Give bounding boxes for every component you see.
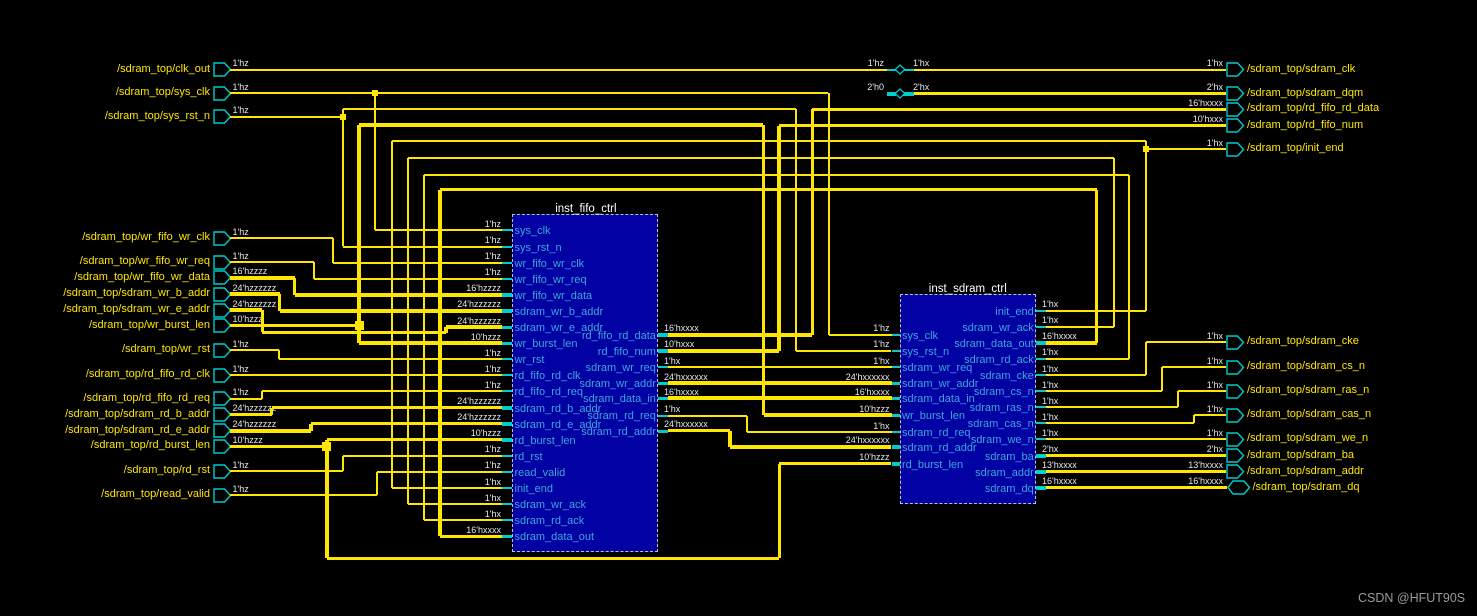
port /sdram_top/read_valid (input) xyxy=(213,488,232,503)
value 2'hx xyxy=(1042,444,1058,454)
pin sdram_ba (inst_sdram_ctrl output) xyxy=(1036,454,1046,458)
value 1'hz xyxy=(381,267,501,277)
value 24'hzzzzzz xyxy=(233,299,277,309)
value 2'hx xyxy=(1103,82,1223,92)
pin sdram_rd_ack (inst_fifo_ctrl input) xyxy=(502,519,512,521)
port /sdram_top/rd_rst (input) xyxy=(213,464,232,479)
junction sys_rst_n xyxy=(340,114,346,120)
wire net sdram_rd_b_addr (bus) xyxy=(230,413,272,417)
value 1'hx xyxy=(1103,58,1223,68)
value 2'h0 xyxy=(764,82,884,92)
value 1'hz xyxy=(233,251,249,261)
port /sdram_top/sdram_wr_e_addr (input) xyxy=(213,303,232,318)
pin sdram_wr_addr (inst_fifo_ctrl output) xyxy=(658,382,668,386)
wire net clk_out -> sdram_clk xyxy=(230,69,887,71)
value 16'hxxxx xyxy=(381,525,501,535)
port /sdram_top/rd_fifo_rd_req (input) xyxy=(213,391,232,406)
port /sdram_top/rd_burst_len (input) xyxy=(213,439,232,454)
pin sdram_dq (inst_sdram_ctrl output) xyxy=(1036,486,1046,490)
pin sdram_cke (inst_sdram_ctrl output) xyxy=(1036,374,1046,376)
wire net sdram_cas_n xyxy=(1046,422,1194,424)
pin sdram_rd_ack (inst_sdram_ctrl output) xyxy=(1036,358,1046,360)
value 1'hx xyxy=(1103,404,1223,414)
value 1'hz xyxy=(233,227,249,237)
wire net sdram_wr_b_addr (bus) xyxy=(230,292,280,296)
value 24'hzzzzzz xyxy=(233,419,277,429)
wire net wr_fifo_wr_clk xyxy=(230,237,333,239)
value 24'hzzzzzz xyxy=(381,412,501,422)
value 16'hxxxx xyxy=(664,323,699,333)
value 24'hzzzzzz xyxy=(381,299,501,309)
port /sdram_top/sdram_rd_e_addr (input) xyxy=(213,423,232,438)
value 1'hz xyxy=(381,219,501,229)
label inst_sdram_ctrl title xyxy=(929,283,1007,295)
value 1'hz xyxy=(233,58,249,68)
pin sys_rst_n (inst_fifo_ctrl input) xyxy=(502,246,512,248)
port /sdram_top/sdram_cke (output) xyxy=(1226,335,1245,350)
wire net sdram_wr_e_addr (bus) xyxy=(230,308,262,312)
wire net read_valid xyxy=(230,494,377,496)
value 1'hz xyxy=(233,387,249,397)
port /sdram_top/sdram_addr (output) xyxy=(1226,464,1245,479)
junction rd_burst_len xyxy=(322,442,331,451)
value 1'hz xyxy=(381,235,501,245)
wire net wr_rst xyxy=(230,349,279,351)
value 1'hz xyxy=(381,348,501,358)
value 2'hx xyxy=(913,82,929,92)
value 16'hxxxx xyxy=(770,387,890,397)
value 13'hxxxx xyxy=(1103,460,1223,470)
port /sdram_top/sdram_ba (output) xyxy=(1226,448,1245,463)
port /sdram_top/sys_rst_n (input) xyxy=(213,109,232,124)
value 1'hx xyxy=(1103,138,1223,148)
value 1'hx xyxy=(1042,412,1058,422)
value 1'hx xyxy=(381,477,501,487)
value 1'hx xyxy=(1042,347,1058,357)
value 1'hx xyxy=(1042,396,1058,406)
wire net sdram_ras_n xyxy=(1046,406,1178,408)
pin sdram_data_in (inst_fifo_ctrl output) xyxy=(658,397,668,401)
wire net rd_fifo_rd_clk xyxy=(230,374,502,376)
value 24'hzzzzzz xyxy=(381,316,501,326)
wire net sdram_dqm xyxy=(887,92,896,96)
wire net sdram_data_in (bus) xyxy=(668,396,892,400)
port /sdram_top/sdram_cas_n (output) xyxy=(1226,408,1245,423)
value 1'hx xyxy=(1042,299,1058,309)
port /sdram_top/rd_fifo_rd_clk (input) xyxy=(213,368,232,383)
value 1'hx xyxy=(664,356,680,366)
pin sdram_addr (inst_sdram_ctrl output) xyxy=(1036,470,1046,474)
pin sdram_wr_req (inst_sdram_ctrl input) xyxy=(892,366,900,368)
value 10'hzzz xyxy=(233,435,263,445)
wire net wr_burst_len (bus) xyxy=(230,324,359,328)
wire net init_end (feedback + output) xyxy=(1145,141,1147,310)
port /sdram_top/sdram_cs_n (output) xyxy=(1226,360,1245,375)
value 1'hz xyxy=(770,323,890,333)
value 1'hx xyxy=(1103,356,1223,366)
wire net sdram_addr (bus) xyxy=(1046,470,1226,474)
pin sdram_we_n (inst_sdram_ctrl output) xyxy=(1036,438,1046,440)
pin rd_burst_len (inst_fifo_ctrl input) xyxy=(502,438,512,442)
value 16'hxxxx xyxy=(1103,98,1223,108)
pin sdram_data_out (inst_fifo_ctrl input) xyxy=(502,535,512,539)
module U1 inst_fifo_ctrl body xyxy=(512,214,658,552)
value 2'hx xyxy=(1103,444,1223,454)
value 1'hz xyxy=(764,58,884,68)
value 1'hx xyxy=(381,509,501,519)
value 1'hx xyxy=(770,421,890,431)
value 24'hxxxxxx xyxy=(664,372,708,382)
wire net sdram_wr_addr (bus) xyxy=(668,381,892,385)
pin rd_rst (inst_fifo_ctrl input) xyxy=(502,455,512,457)
pin wr_fifo_wr_data (inst_fifo_ctrl input) xyxy=(502,293,512,297)
pin sdram_ras_n (inst_sdram_ctrl output) xyxy=(1036,406,1046,408)
value 10'hzzz xyxy=(381,428,501,438)
wire net sys_clk xyxy=(230,92,375,94)
wire net sdram_wr_ack (feedback) xyxy=(1046,326,1114,328)
value 1'hx xyxy=(1103,428,1223,438)
pin rd_fifo_rd_clk (inst_fifo_ctrl input) xyxy=(502,374,512,376)
wire net rd_burst_len (bus) xyxy=(230,445,327,449)
wire net sdram_wr_req xyxy=(668,366,892,368)
port /sdram_top/sdram_rd_b_addr (input) xyxy=(213,407,232,422)
value 1'hx xyxy=(1103,331,1223,341)
wire net sdram_cke xyxy=(1046,374,1146,376)
port /sdram_top/sdram_ras_n (output) xyxy=(1226,384,1245,399)
value 1'hx xyxy=(1042,428,1058,438)
port /sdram_top/sdram_dqm (output) xyxy=(1226,86,1245,101)
pin wr_burst_len (inst_sdram_ctrl input) xyxy=(892,414,900,418)
wire net rd_fifo_rd_req xyxy=(230,398,262,400)
pin sdram_cs_n (inst_sdram_ctrl output) xyxy=(1036,390,1046,392)
pin rd_fifo_rd_req (inst_fifo_ctrl input) xyxy=(502,390,512,392)
wire net sdram_rd_e_addr (bus) xyxy=(230,429,311,433)
wire net sdram_we_n xyxy=(1046,438,1226,440)
port /sdram_top/rd_fifo_rd_data (output) xyxy=(1226,102,1245,117)
value 24'hxxxxxx xyxy=(664,419,708,429)
value 1'hz xyxy=(233,339,249,349)
value 1'hz xyxy=(770,339,890,349)
value 24'hxxxxxx xyxy=(770,372,890,382)
value 13'hxxxx xyxy=(1042,460,1077,470)
value 1'hz xyxy=(381,460,501,470)
value 16'hzzzz xyxy=(381,283,501,293)
port /sdram_top/sdram_clk (output) xyxy=(1226,62,1245,77)
wire net wr_fifo_wr_data (bus) xyxy=(230,276,295,280)
pin sdram_rd_b_addr (inst_fifo_ctrl input) xyxy=(502,406,512,410)
port /sdram_top/rd_fifo_num (output) xyxy=(1226,118,1245,133)
value 10'hzzz xyxy=(770,404,890,414)
value 16'hzzzz xyxy=(233,266,268,276)
junction wr_burst_len xyxy=(355,321,364,330)
value 1'hz xyxy=(381,444,501,454)
value 24'hzzzzzz xyxy=(233,403,277,413)
port /sdram_top/sys_clk (input) xyxy=(213,86,232,101)
pin init_end (inst_fifo_ctrl input) xyxy=(502,487,512,489)
pin sdram_data_in (inst_sdram_ctrl input) xyxy=(892,397,900,401)
wire net rd_rst xyxy=(230,470,343,472)
pin wr_rst (inst_fifo_ctrl input) xyxy=(502,358,512,360)
node conversion diamond (2'h0/2'hx) xyxy=(894,88,906,99)
value 1'hx xyxy=(1103,380,1223,390)
value 16'hxxxx xyxy=(1042,476,1077,486)
pin sdram_rd_req (inst_sdram_ctrl input) xyxy=(892,431,900,433)
wire net sys_rst_n xyxy=(230,116,343,118)
port /sdram_top/init_end (output) xyxy=(1226,142,1245,157)
value 1'hz xyxy=(381,364,501,374)
value 1'hx xyxy=(664,404,680,414)
value 1'hz xyxy=(381,380,501,390)
wire net sdram_cs_n xyxy=(1046,390,1162,392)
port /sdram_top/sdram_we_n (output) xyxy=(1226,432,1245,447)
watermark xyxy=(1358,591,1465,605)
value 1'hx xyxy=(381,493,501,503)
pin sdram_rd_e_addr (inst_fifo_ctrl input) xyxy=(502,422,512,426)
value 1'hx xyxy=(913,58,929,68)
pin sys_clk (inst_fifo_ctrl input) xyxy=(502,229,512,231)
value 1'hx xyxy=(770,356,890,366)
value 24'hxxxxxx xyxy=(770,435,890,445)
pin wr_burst_len (inst_fifo_ctrl input) xyxy=(502,342,512,346)
pin sys_clk (inst_sdram_ctrl input) xyxy=(892,334,900,336)
value 10'hzzz xyxy=(233,314,263,324)
pin sdram_wr_ack (inst_fifo_ctrl input) xyxy=(502,503,512,505)
value 1'hz xyxy=(233,364,249,374)
pin sys_rst_n (inst_sdram_ctrl input) xyxy=(892,350,900,352)
pin sdram_wr_b_addr (inst_fifo_ctrl input) xyxy=(502,309,512,313)
value 1'hx xyxy=(1042,315,1058,325)
pin sdram_data_out (inst_sdram_ctrl output) xyxy=(1036,341,1046,345)
port /sdram_top/sdram_dq (inout) xyxy=(1227,480,1251,495)
pin wr_fifo_wr_clk (inst_fifo_ctrl input) xyxy=(502,262,512,264)
wire net sdram_ba (bus) xyxy=(1046,454,1226,458)
pin rd_burst_len (inst_sdram_ctrl input) xyxy=(892,462,900,466)
port /sdram_top/wr_fifo_wr_clk (input) xyxy=(213,231,232,246)
value 1'hz xyxy=(233,460,249,470)
pin sdram_wr_addr (inst_sdram_ctrl input) xyxy=(892,382,900,386)
value 10'hxxx xyxy=(1103,114,1223,124)
pin sdram_cas_n (inst_sdram_ctrl output) xyxy=(1036,422,1046,424)
value 16'hxxxx xyxy=(1042,331,1077,341)
pin read_valid (inst_fifo_ctrl input) xyxy=(502,471,512,473)
port /sdram_top/clk_out (input) xyxy=(213,62,232,77)
value 16'hxxxx xyxy=(664,387,699,397)
value 24'hzzzzzz xyxy=(381,396,501,406)
value 10'hzzz xyxy=(381,332,501,342)
label inst_fifo_ctrl title xyxy=(555,203,616,215)
port /sdram_top/sdram_wr_b_addr (input) xyxy=(213,287,232,302)
junction sys_clk xyxy=(372,90,378,96)
pin sdram_wr_req (inst_fifo_ctrl output) xyxy=(658,366,668,368)
pin sdram_rd_addr (inst_sdram_ctrl input) xyxy=(892,445,900,449)
value 10'hxxx xyxy=(664,339,694,349)
value 1'hz xyxy=(233,82,249,92)
wire net sdram_rd_ack (feedback) xyxy=(1046,358,1129,360)
wire net sdram_rd_req xyxy=(668,415,747,417)
wire net sdram_rd_addr (bus) xyxy=(668,429,730,433)
wire net wr_fifo_wr_req xyxy=(230,261,314,263)
value 1'hz xyxy=(233,105,249,115)
value 10'hzzz xyxy=(770,452,890,462)
value 1'hz xyxy=(381,251,501,261)
value 24'hzzzzzz xyxy=(233,283,277,293)
port /sdram_top/wr_fifo_wr_req (input) xyxy=(213,255,232,270)
pin sdram_rd_req (inst_fifo_ctrl output) xyxy=(658,415,668,417)
port /sdram_top/wr_rst (input) xyxy=(213,343,232,358)
value 16'hxxxx xyxy=(1103,476,1223,486)
pin rd_fifo_rd_data (inst_fifo_ctrl output) xyxy=(658,333,668,337)
wire net rd_fifo_rd_data (bus) xyxy=(668,333,812,337)
value 1'hz xyxy=(233,484,249,494)
pin rd_fifo_num (inst_fifo_ctrl output) xyxy=(658,349,668,353)
port /sdram_top/wr_burst_len (input) xyxy=(213,318,232,333)
pin sdram_wr_e_addr (inst_fifo_ctrl input) xyxy=(502,326,512,330)
value 1'hx xyxy=(1042,364,1058,374)
wire net sdram_data_out (bus feedback) xyxy=(1046,341,1097,345)
wire net rd_fifo_num (bus) xyxy=(668,349,779,353)
pin wr_fifo_wr_req (inst_fifo_ctrl input) xyxy=(502,278,512,280)
wire net sdram_dq (bus) xyxy=(1046,486,1227,490)
junction init_end xyxy=(1143,146,1149,152)
pin init_end (inst_sdram_ctrl output) xyxy=(1036,310,1046,312)
pin sdram_rd_addr (inst_fifo_ctrl output) xyxy=(658,430,668,434)
pin sdram_wr_ack (inst_sdram_ctrl output) xyxy=(1036,326,1046,328)
port /sdram_top/wr_fifo_wr_data (input) xyxy=(213,270,232,285)
node conversion diamond (1'hz/1'hx) xyxy=(894,64,906,75)
module U2 inst_sdram_ctrl body xyxy=(900,294,1037,504)
value 1'hx xyxy=(1042,380,1058,390)
